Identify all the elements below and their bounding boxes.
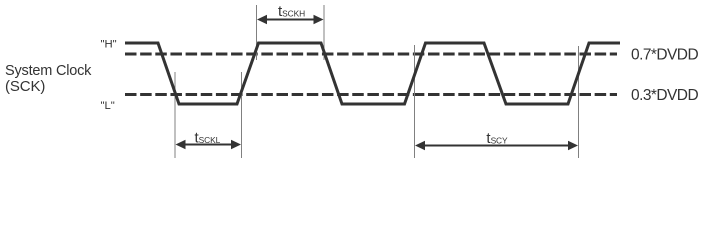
svg-text:"H": "H" bbox=[101, 39, 117, 51]
svg-text:"L": "L" bbox=[101, 100, 115, 112]
svg-text:0.3*DVDD: 0.3*DVDD bbox=[631, 87, 698, 104]
svg-text:System Clock: System Clock bbox=[5, 63, 92, 79]
svg-text:(SCK): (SCK) bbox=[5, 78, 45, 95]
svg-text:0.7*DVDD: 0.7*DVDD bbox=[631, 47, 698, 64]
